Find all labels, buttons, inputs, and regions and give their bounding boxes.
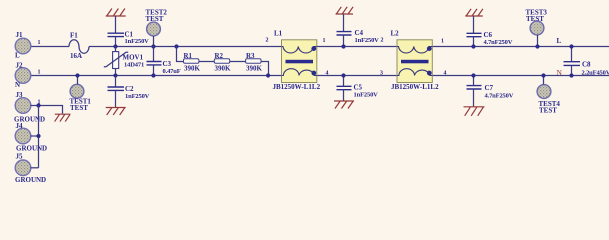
wire L rail L1 to L2 bbox=[317, 46, 397, 48]
wire C6 to L rail bbox=[473, 37, 475, 47]
wire C8 to N rail bbox=[571, 65, 573, 75]
svg-text:L1: L1 bbox=[274, 30, 283, 38]
svg-text:TEST: TEST bbox=[526, 15, 544, 23]
wire ground bus J3 to J5 bbox=[38, 106, 40, 168]
svg-text:C3: C3 bbox=[163, 60, 172, 68]
ground chassis at J3 bbox=[55, 114, 71, 121]
junction L rail at C3 bbox=[151, 44, 155, 48]
svg-text:TEST: TEST bbox=[146, 15, 164, 23]
background sheet bbox=[0, 0, 609, 187]
svg-text:TEST: TEST bbox=[539, 107, 557, 115]
svg-text:1nF250V: 1nF250V bbox=[125, 38, 150, 45]
svg-text:1nF250V: 1nF250V bbox=[355, 37, 380, 44]
wire ground to C1 bbox=[115, 16, 117, 33]
wire N rail to C5 bbox=[343, 76, 345, 87]
svg-text:1nF250V: 1nF250V bbox=[354, 92, 379, 99]
wire TEST4 stub bbox=[543, 76, 545, 85]
resistor R3 bbox=[246, 59, 261, 64]
wire N rail L2 to right edge bbox=[432, 75, 609, 77]
varistor MOV1 bbox=[104, 52, 128, 69]
junction N rail at C8 bbox=[569, 73, 573, 77]
svg-text:390K: 390K bbox=[246, 65, 263, 73]
svg-text:C6: C6 bbox=[484, 31, 493, 39]
svg-text:C5: C5 bbox=[354, 84, 363, 92]
wire TEST1 stub bbox=[77, 76, 79, 85]
junction N rail at TEST4 bbox=[541, 73, 545, 77]
junction L rail at C1 bbox=[113, 44, 117, 48]
wire L rail to C8 bbox=[571, 47, 573, 62]
connector J2 bbox=[15, 68, 31, 84]
junction N rail at C3 bbox=[151, 73, 155, 77]
capacitor C2 bbox=[108, 87, 125, 90]
svg-text:390K: 390K bbox=[215, 65, 232, 73]
L1 core bar bbox=[286, 60, 314, 64]
L1 polarity dot bottom bbox=[311, 71, 316, 76]
junction L rail at C4 bbox=[341, 44, 345, 48]
svg-text:C2: C2 bbox=[125, 85, 134, 93]
wire C1 to L rail bbox=[115, 37, 117, 47]
svg-text:L: L bbox=[557, 37, 562, 45]
L2 polarity dot top bbox=[427, 46, 432, 51]
svg-text:JB1250W-L1L2: JB1250W-L1L2 bbox=[391, 83, 439, 91]
capacitor C6 bbox=[467, 33, 482, 36]
svg-text:C8: C8 bbox=[582, 61, 591, 69]
svg-text:1: 1 bbox=[323, 38, 326, 44]
wire R1 to R2 bbox=[199, 61, 214, 63]
wire L rail to MOV1 bbox=[115, 47, 117, 52]
svg-text:TEST: TEST bbox=[70, 104, 88, 112]
svg-text:1: 1 bbox=[441, 39, 444, 45]
junction N rail at C7 bbox=[471, 73, 475, 77]
svg-text:L2: L2 bbox=[391, 30, 400, 38]
ground chassis below C7 bbox=[464, 107, 485, 116]
L2 bottom winding bbox=[397, 69, 432, 76]
svg-text:R3: R3 bbox=[246, 52, 255, 60]
svg-text:2: 2 bbox=[266, 38, 269, 44]
svg-text:J1: J1 bbox=[16, 31, 24, 39]
connector J3 bbox=[15, 98, 31, 114]
wire N rail to C2 bbox=[115, 76, 117, 88]
wire N rail L1 to L2 bbox=[317, 75, 397, 77]
wire J5 stub bbox=[31, 167, 39, 169]
wire C2 to ground bbox=[115, 90, 117, 107]
junction L rail at C6 bbox=[471, 44, 475, 48]
capacitor C5 bbox=[337, 86, 352, 89]
svg-text:2.2uF450V: 2.2uF450V bbox=[582, 70, 609, 77]
svg-text:2: 2 bbox=[381, 38, 384, 44]
connector J4 bbox=[15, 128, 31, 144]
svg-text:C7: C7 bbox=[485, 84, 494, 92]
capacitor C7 bbox=[467, 86, 482, 89]
connector J5 bbox=[15, 160, 31, 176]
wire L rail fuse to L1 bbox=[89, 46, 282, 48]
L2 core bar bbox=[401, 60, 429, 64]
junction N rail at MOV1 bbox=[113, 73, 117, 77]
ground chassis above C1 bbox=[106, 9, 126, 17]
junction N rail at TEST1 bbox=[75, 73, 79, 77]
wire L rail to C3 bbox=[153, 47, 155, 62]
svg-text:L: L bbox=[15, 52, 20, 60]
connector J1 bbox=[15, 38, 31, 54]
fuse F1 bbox=[69, 40, 89, 54]
svg-text:GROUND: GROUND bbox=[15, 176, 46, 184]
svg-text:R2: R2 bbox=[215, 52, 224, 60]
wire J4 stub bbox=[31, 135, 39, 137]
junction L rail at TEST3 bbox=[535, 44, 539, 48]
svg-text:J3: J3 bbox=[16, 91, 24, 99]
wire C4 to L rail bbox=[343, 35, 345, 47]
svg-text:14D471: 14D471 bbox=[124, 62, 144, 69]
test point TEST2 bbox=[147, 22, 161, 36]
wire C5 to ground bbox=[343, 90, 345, 101]
wire TEST3 stub bbox=[537, 35, 539, 47]
L2 top winding bbox=[397, 47, 432, 53]
capacitor C3 bbox=[147, 62, 162, 65]
svg-text:4: 4 bbox=[444, 71, 447, 77]
L1 polarity dot top bbox=[311, 46, 316, 51]
choke L2 body bbox=[397, 40, 432, 83]
L1 bottom winding bbox=[282, 69, 317, 76]
svg-text:N: N bbox=[557, 68, 563, 77]
wire N rail J2 to L1 bbox=[31, 75, 282, 77]
L2 polarity dot bottom bbox=[427, 71, 432, 76]
wire ground to C6 bbox=[473, 16, 475, 33]
wire C7 to ground bbox=[473, 89, 475, 107]
svg-text:C4: C4 bbox=[355, 29, 364, 37]
test point TEST4 bbox=[537, 85, 551, 99]
svg-text:0.47uF: 0.47uF bbox=[163, 68, 181, 75]
choke L1 body bbox=[282, 40, 317, 83]
wire ground to C4 bbox=[343, 14, 345, 32]
svg-text:1: 1 bbox=[38, 40, 41, 46]
svg-text:4.7nF250V: 4.7nF250V bbox=[485, 93, 514, 100]
svg-text:N: N bbox=[15, 81, 20, 89]
test point TEST1 bbox=[70, 84, 84, 98]
wire TEST2 stub bbox=[153, 36, 155, 47]
wire N rail to C7 bbox=[473, 76, 475, 86]
ground chassis above C6 bbox=[465, 9, 483, 16]
junction N rail at C5 bbox=[341, 73, 345, 77]
svg-text:JB1250W-L1L2: JB1250W-L1L2 bbox=[273, 83, 321, 91]
wire R chain drop from L rail bbox=[177, 47, 184, 62]
wire R2 to R3 bbox=[230, 61, 246, 63]
svg-text:J5: J5 bbox=[16, 153, 24, 161]
svg-text:GROUND: GROUND bbox=[16, 145, 47, 153]
svg-text:1nF250V: 1nF250V bbox=[125, 93, 150, 100]
ground chassis below C5 bbox=[334, 101, 354, 109]
svg-text:J2: J2 bbox=[16, 62, 24, 70]
wire R3 to N rail bbox=[261, 62, 269, 76]
svg-text:J4: J4 bbox=[16, 122, 24, 130]
wire C3 to N rail bbox=[153, 65, 155, 76]
resistor R2 bbox=[214, 59, 229, 64]
svg-text:MOV1: MOV1 bbox=[123, 54, 144, 62]
test point TEST3 bbox=[530, 21, 544, 35]
svg-text:4.7nF250V: 4.7nF250V bbox=[484, 39, 513, 46]
svg-text:4: 4 bbox=[326, 71, 329, 77]
ground chassis above C4 bbox=[336, 7, 354, 14]
capacitor C1 bbox=[108, 33, 125, 36]
junction L rail at R chain bbox=[174, 44, 178, 48]
junction on J3 wire bbox=[36, 103, 40, 107]
wire MOV1 to N rail bbox=[115, 69, 117, 76]
wire J3 to ground bbox=[31, 106, 63, 114]
junction N rail at R chain bbox=[266, 73, 270, 77]
capacitor C8 bbox=[564, 62, 581, 66]
svg-text:F1: F1 bbox=[70, 32, 78, 40]
svg-text:16A: 16A bbox=[70, 52, 82, 60]
svg-text:390K: 390K bbox=[184, 65, 201, 73]
wire L rail J1 to fuse bbox=[31, 46, 70, 48]
svg-text:1: 1 bbox=[38, 70, 41, 76]
junction L rail at C8 bbox=[569, 44, 573, 48]
wire L rail L2 to right edge bbox=[432, 46, 609, 48]
svg-text:3: 3 bbox=[380, 71, 383, 77]
junction on bus at J4 bbox=[36, 134, 40, 138]
L1 top winding bbox=[282, 47, 317, 53]
ground chassis below C2 bbox=[106, 108, 126, 116]
resistor R1 bbox=[184, 59, 199, 64]
svg-text:R1: R1 bbox=[184, 52, 193, 60]
capacitor C4 bbox=[337, 32, 352, 35]
